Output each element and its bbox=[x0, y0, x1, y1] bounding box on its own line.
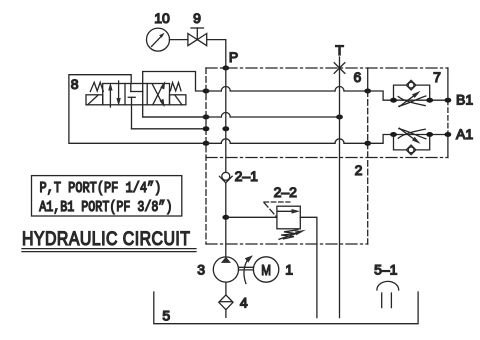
wire gauge to valve 9 bbox=[170, 39, 188, 41]
line 4 (A) with hops at P and T lines bbox=[206, 139, 368, 144]
valve 8 left solenoid bbox=[86, 95, 103, 105]
P supply vertical line bbox=[225, 68, 227, 257]
node P bbox=[222, 66, 229, 71]
shaft pump-motor bbox=[239, 267, 254, 270]
valve 8 right solenoid bbox=[170, 95, 186, 105]
throttle arcs top bbox=[398, 96, 426, 106]
svg-text:1: 1 bbox=[285, 262, 293, 278]
svg-text:2–1: 2–1 bbox=[235, 168, 259, 184]
svg-text:7: 7 bbox=[433, 69, 441, 85]
relief valve adjust arrow bbox=[279, 230, 306, 240]
valve 8 centre blocked P (T symbol) bbox=[128, 97, 135, 129]
manifold boundary bottom (dash-dot) bbox=[206, 243, 368, 245]
valve 8 right spring bbox=[170, 83, 181, 91]
suction line filter to tank bbox=[225, 310, 227, 318]
wire valve A port loop (left big loop to line 4) bbox=[69, 75, 206, 144]
T return vertical line bbox=[339, 68, 341, 318]
suction line pump to filter bbox=[225, 282, 227, 295]
svg-text:A1,B1 PORT(PF 3/8”): A1,B1 PORT(PF 3/8”) bbox=[39, 200, 172, 217]
relief valve internal arrow bbox=[278, 209, 300, 214]
svg-text:4: 4 bbox=[240, 295, 248, 311]
wire valve B port loop (right loop to line 1) bbox=[143, 72, 206, 92]
motor 1 bbox=[253, 257, 278, 282]
svg-text:9: 9 bbox=[193, 10, 201, 26]
throttle arrow top bbox=[399, 91, 420, 107]
bypass rectangle bottom bbox=[394, 135, 430, 150]
manifold boundary left (dashed) bbox=[205, 68, 207, 244]
port text box bbox=[32, 176, 182, 216]
relief valve 2-2 body bbox=[277, 206, 300, 229]
boundary right: solid 68-100, dashed 100-134.5, solid 134.5-157.5 bbox=[447, 68, 449, 100]
svg-text:10: 10 bbox=[154, 10, 170, 26]
check valve top (diamond + ball) bbox=[406, 80, 416, 90]
nodes flow control top bbox=[390, 98, 397, 103]
breather 5-1 bbox=[377, 281, 399, 307]
title underline double bbox=[22, 249, 196, 252]
valve 8 right position crossed arrows bbox=[152, 81, 165, 107]
svg-text:B1: B1 bbox=[456, 92, 473, 108]
throttle arrow bottom bbox=[399, 128, 420, 144]
tank 5 bbox=[154, 292, 418, 324]
relief valve spring bbox=[281, 230, 298, 239]
svg-text:5–1: 5–1 bbox=[374, 262, 398, 278]
line 4 step up to flow control bbox=[368, 135, 394, 144]
svg-text:8: 8 bbox=[71, 76, 79, 92]
svg-text:5: 5 bbox=[162, 308, 170, 324]
wire valve through line to line 2 bbox=[143, 72, 206, 118]
manifold boundary top (dash-dot) bbox=[206, 67, 448, 69]
throttle arcs bottom bbox=[398, 129, 426, 139]
svg-text:HYDRAULIC CIRCUIT: HYDRAULIC CIRCUIT bbox=[22, 227, 190, 249]
nodes flow control bottom bbox=[390, 132, 397, 137]
node B1 bbox=[445, 98, 452, 103]
svg-text:6: 6 bbox=[354, 69, 362, 85]
line 2 (T) with hop at P line bbox=[143, 113, 340, 118]
pump 3 bbox=[213, 257, 238, 282]
node line3/P bbox=[222, 126, 229, 131]
check valve 2-1 bbox=[219, 172, 232, 183]
svg-text:P,T PORT(PF 1/4”): P,T PORT(PF 1/4”) bbox=[40, 181, 162, 198]
rotation arrow bbox=[244, 255, 253, 283]
node line4/item6 bbox=[364, 141, 371, 146]
svg-text:2–2: 2–2 bbox=[274, 184, 298, 200]
svg-text:M: M bbox=[261, 261, 271, 278]
wire tee to relief valve bbox=[226, 216, 277, 218]
flow control 7 top (to B1): main line bbox=[394, 99, 448, 101]
node line1/item6 bbox=[364, 89, 371, 94]
shutoff valve 9 bbox=[188, 28, 207, 46]
valve 8 centre position: jog and through line bbox=[131, 84, 143, 92]
manifold boundary mid horizontal (dash-dot) bbox=[206, 157, 448, 159]
wire valve P stem to line 3 bbox=[132, 128, 206, 130]
item 6 vertical: solid 68-91 then dashed to 244 bbox=[367, 68, 369, 91]
bypass rectangle top bbox=[394, 85, 430, 100]
node line2/T bbox=[336, 115, 343, 120]
gauge 10 bbox=[147, 28, 170, 51]
port dots on left boundary bbox=[203, 89, 210, 94]
T stem bbox=[339, 57, 341, 68]
wire valve 9 to P bbox=[207, 40, 226, 68]
valve 8 body squares bbox=[103, 84, 170, 105]
valve 8 left spring bbox=[90, 82, 103, 91]
line 1 step down to flow control bbox=[368, 91, 394, 100]
relief valve outlet wire bbox=[300, 217, 317, 317]
check valve bottom (diamond + ball) bbox=[406, 145, 416, 155]
svg-text:A1: A1 bbox=[456, 126, 473, 142]
flow control 7 bottom (to A1): main line bbox=[394, 134, 448, 136]
plugged port X at T bbox=[334, 63, 345, 74]
node A1 bbox=[445, 132, 452, 137]
svg-text:2: 2 bbox=[355, 162, 363, 178]
filter 4 bbox=[219, 295, 233, 310]
svg-text:3: 3 bbox=[197, 262, 205, 278]
svg-text:T: T bbox=[335, 42, 344, 58]
valve 8 left position arrows bbox=[108, 81, 121, 107]
line 1 (B) with hops at P and T lines bbox=[206, 87, 368, 91]
node relief tee bbox=[222, 215, 229, 220]
svg-text:P: P bbox=[229, 49, 238, 65]
relief valve pilot dashes bbox=[264, 202, 290, 217]
